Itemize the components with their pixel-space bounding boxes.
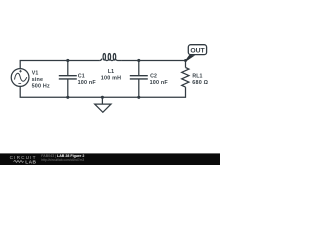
svg-text:LAB: LAB — [25, 159, 36, 165]
svg-text:680 Ω: 680 Ω — [192, 80, 208, 86]
svg-text:500 Hz: 500 Hz — [32, 84, 50, 90]
wire top right: inductor to OUT node — [122, 59, 186, 61]
node dots — [66, 59, 187, 99]
logo zigzag — [14, 160, 24, 162]
node C2 top — [137, 59, 140, 62]
node OUT corner — [184, 59, 187, 62]
svg-text:100 nF: 100 nF — [150, 80, 169, 86]
wire top left: V1 up and across to inductor — [20, 60, 100, 68]
resistor RL1 zigzag — [182, 68, 189, 88]
svg-text:RL1: RL1 — [192, 73, 202, 79]
footer bar — [0, 153, 220, 165]
svg-text:FAB043 | LAB 28 Figure 2: FAB043 | LAB 28 Figure 2 — [41, 154, 84, 158]
wire bottom rail — [20, 86, 185, 97]
labels — [32, 69, 209, 90]
svg-text:L1: L1 — [108, 69, 114, 75]
svg-text:sine: sine — [32, 77, 44, 83]
node ground — [101, 96, 104, 99]
ground — [95, 97, 111, 112]
wire RL1 top lead — [185, 60, 187, 67]
svg-text:C1: C1 — [78, 73, 85, 79]
svg-text:100 nF: 100 nF — [78, 80, 97, 86]
node C1 top — [66, 59, 69, 62]
capacitor C2 — [130, 60, 148, 97]
svg-text:http://circuitlab.com/c6hd7m3: http://circuitlab.com/c6hd7m3 — [41, 158, 84, 162]
node C2 bottom — [137, 96, 140, 99]
flag OUT — [185, 45, 207, 62]
voltage source V1 — [11, 69, 29, 87]
inductor L1 — [100, 54, 122, 61]
capacitor C1 — [59, 60, 77, 97]
svg-text:V1: V1 — [32, 71, 39, 77]
svg-text:100 mH: 100 mH — [101, 76, 121, 82]
svg-text:C2: C2 — [150, 73, 157, 79]
svg-text:OUT: OUT — [190, 47, 205, 54]
node C1 bottom — [66, 96, 69, 99]
